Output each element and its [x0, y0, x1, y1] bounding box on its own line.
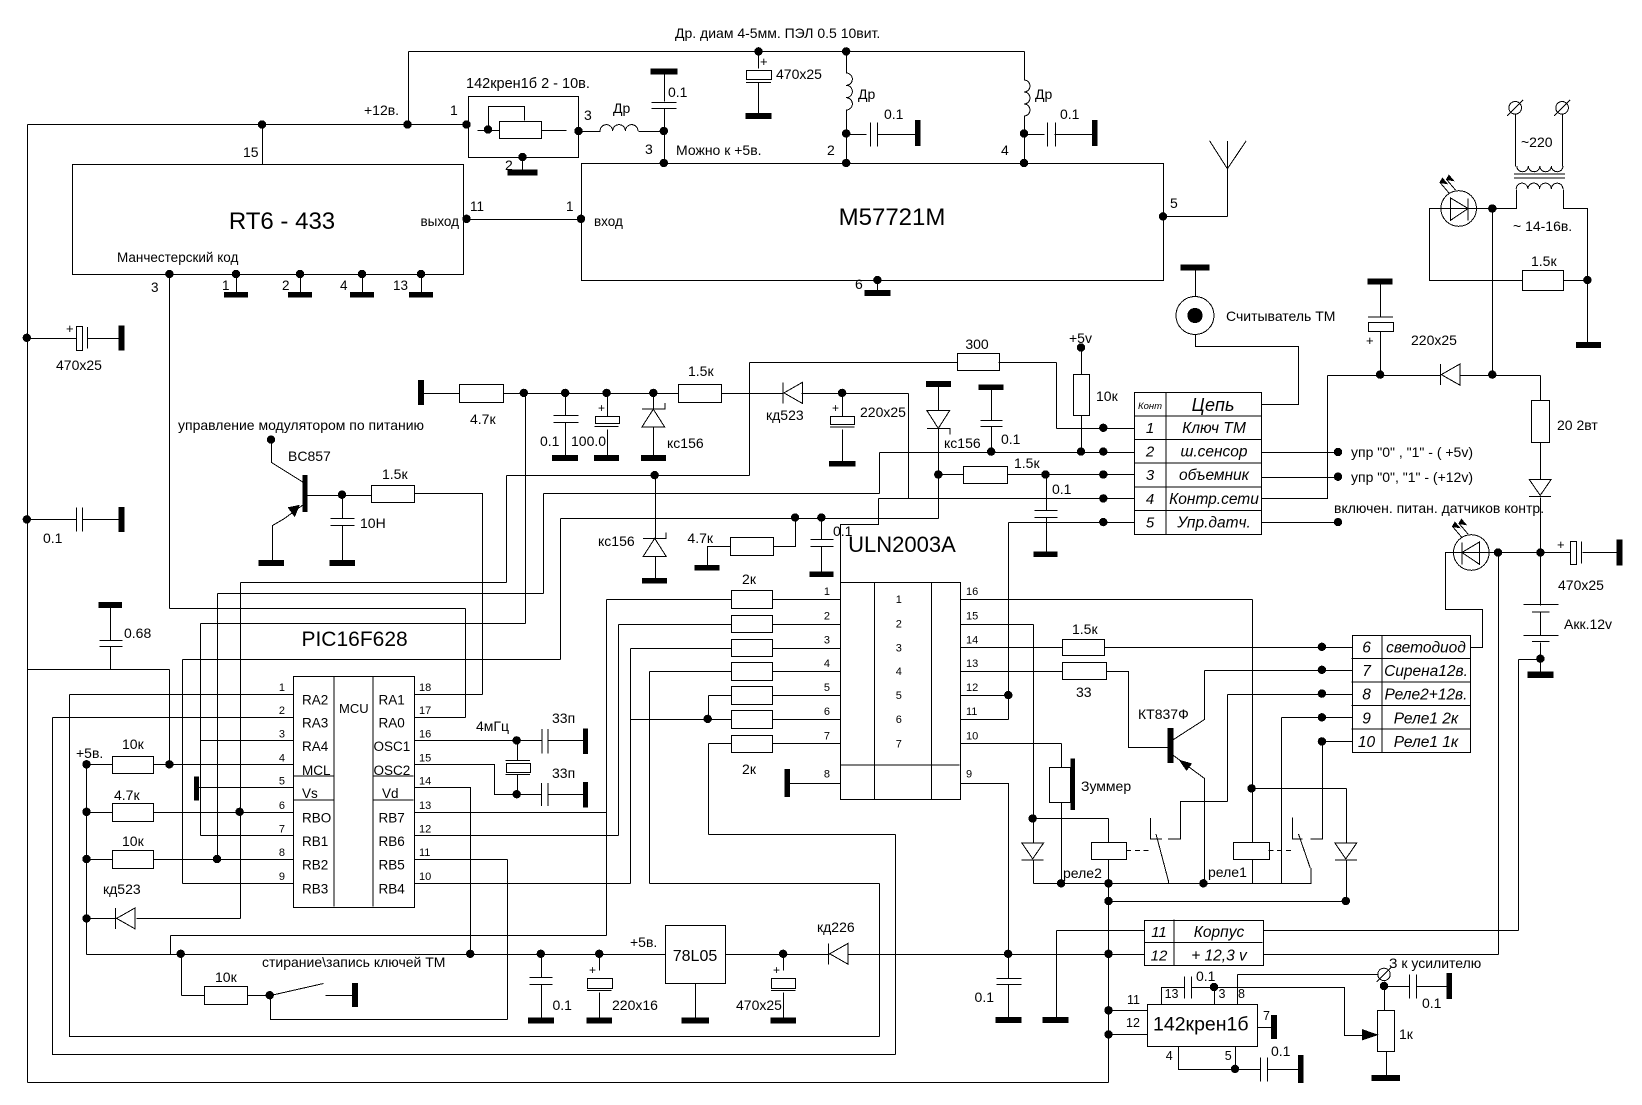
pin 15: [243, 144, 259, 160]
junction: [838, 389, 846, 397]
ground: [289, 293, 312, 298]
junction: [213, 855, 221, 863]
wire: [709, 834, 896, 836]
label 78L05: [673, 948, 718, 965]
junction: [1104, 1030, 1112, 1038]
pin 1: [566, 199, 574, 214]
resistor 1.5k: [372, 486, 415, 503]
label ULN2003A: [848, 532, 956, 557]
svg-text:4: 4: [896, 666, 902, 678]
connector TM reader: [1176, 297, 1214, 335]
terminal bar: [1181, 265, 1209, 270]
wire: [1033, 861, 1035, 884]
wire: [878, 134, 917, 136]
junction: [779, 950, 787, 958]
svg-text:+: +: [66, 321, 74, 336]
wire: [895, 835, 897, 1055]
polarity +: [1557, 537, 1565, 552]
wire RBO: [154, 812, 294, 814]
label M57721M: [839, 204, 946, 231]
diode VD: [1440, 364, 1459, 385]
wire: [722, 393, 784, 395]
block ULN2003A: [840, 582, 960, 800]
wire: [1380, 285, 1382, 318]
wire: [110, 608, 112, 641]
svg-text:Сирена12в.: Сирена12в.: [1384, 663, 1468, 680]
wire +12v rail: [28, 124, 469, 126]
svg-text:0.1: 0.1: [884, 106, 904, 122]
resistor 2k: [732, 591, 773, 609]
junction node3: [660, 127, 668, 135]
table contacts 11-12: [1145, 920, 1264, 966]
svg-text:6: 6: [1362, 640, 1371, 657]
wire +5 line: [87, 954, 666, 956]
pin label RA3: [302, 716, 328, 731]
label rele1: [1208, 864, 1247, 880]
node upr5: [1334, 448, 1342, 456]
wire: [1025, 134, 1045, 136]
pin num 14: [966, 635, 978, 647]
polarity +: [66, 321, 74, 336]
pin label RA2: [302, 693, 328, 708]
wire: [1008, 985, 1010, 1018]
wire node3 to M pin3: [664, 132, 666, 164]
terminal bar: [979, 385, 1003, 390]
pin label RA1: [379, 693, 405, 708]
diode flyback rele1: [1335, 843, 1357, 860]
polarity +: [589, 963, 596, 977]
ground: [1034, 552, 1057, 557]
svg-text:11: 11: [1151, 924, 1167, 941]
terminal bar: [651, 69, 677, 74]
svg-text:220x25: 220x25: [860, 404, 906, 420]
svg-text:OSC1: OSC1: [374, 739, 411, 754]
label RT6-433: [229, 208, 335, 235]
wire: [802, 393, 909, 395]
svg-text:выход: выход: [420, 214, 459, 229]
wire RT6 pin15: [262, 125, 264, 165]
diode VD2: [1529, 479, 1551, 496]
wire: [939, 474, 964, 476]
wire: [544, 493, 880, 495]
wire: [1227, 695, 1229, 802]
label ks156: [598, 533, 635, 549]
wire: [938, 429, 940, 475]
wire: [560, 519, 562, 660]
value 10k: [1096, 388, 1119, 404]
terminal bar: [119, 507, 124, 531]
wire: [1061, 803, 1063, 884]
value 2k: [742, 761, 757, 777]
wire svetodiod to LED: [1446, 553, 1483, 648]
svg-text:13: 13: [393, 278, 408, 293]
wire: [1515, 115, 1517, 167]
table row name korpus: [1194, 924, 1245, 941]
table row num 2: [1145, 444, 1155, 461]
svg-text:4: 4: [824, 658, 830, 670]
wire row5: [1009, 522, 1135, 524]
svg-text:2: 2: [896, 619, 902, 631]
pin num 11: [966, 706, 977, 718]
wire: [1540, 376, 1542, 401]
pin num 12: [966, 682, 978, 694]
transformer T1 primary: [1517, 166, 1563, 172]
value 10N: [360, 515, 386, 531]
svg-text:2к: 2к: [742, 571, 757, 587]
wire row10 stub: [1323, 741, 1353, 743]
wire: [1109, 901, 1347, 903]
wire: [1081, 416, 1083, 453]
pin num 1: [279, 682, 285, 694]
table header Kont: [1138, 401, 1162, 412]
transformer core: [1514, 174, 1565, 178]
node M pin5: [1159, 212, 1167, 220]
wire secondary left: [1493, 190, 1517, 209]
junction: [842, 47, 850, 55]
wire: [248, 995, 271, 997]
wire 300 to row1: [999, 362, 1057, 364]
block M57721M: [582, 164, 1164, 281]
svg-text:6: 6: [855, 276, 863, 292]
svg-text:0.1: 0.1: [1196, 968, 1216, 984]
switch contact: [326, 995, 353, 997]
svg-text:9: 9: [966, 769, 972, 781]
ground: [1528, 672, 1553, 678]
svg-text:+: +: [1557, 537, 1565, 552]
svg-text:10к: 10к: [215, 969, 238, 985]
svg-text:300: 300: [965, 336, 989, 352]
block 142kren1b: [1148, 1005, 1258, 1047]
svg-text:4: 4: [1146, 491, 1154, 508]
label BC857: [288, 448, 331, 464]
connector terminal: [1554, 100, 1570, 116]
table row name 12v: [1191, 948, 1248, 965]
svg-text:кд523: кд523: [103, 881, 141, 897]
svg-text:1: 1: [566, 199, 574, 214]
pin 1: [222, 278, 230, 293]
wire: [1346, 789, 1348, 844]
wire RB4: [415, 883, 631, 885]
wire: [517, 775, 519, 795]
label KT837F: [1138, 706, 1189, 722]
capacitor 220x16: [587, 979, 613, 991]
wire: [541, 985, 543, 1019]
svg-text:5: 5: [1225, 1049, 1232, 1063]
table row num 8: [1362, 687, 1371, 704]
junction: [1536, 548, 1544, 556]
inductor Dr2: [846, 73, 852, 110]
svg-text:RB7: RB7: [379, 810, 405, 825]
wire out9: [961, 784, 1009, 955]
wire pin stub: [300, 275, 302, 293]
svg-text:RB3: RB3: [302, 881, 328, 896]
junction: [1104, 897, 1112, 905]
wire RA4: [201, 740, 294, 742]
inductor Dr1: [600, 125, 638, 131]
pin 2: [505, 157, 513, 173]
wire pin stub: [236, 275, 238, 293]
junction: [513, 790, 521, 798]
wire to RA1: [415, 494, 483, 695]
svg-text:0.1: 0.1: [553, 997, 573, 1013]
wire row4 jog: [841, 499, 879, 583]
label Dr: [1035, 86, 1052, 102]
svg-text:142крен1б: 142крен1б: [1153, 1014, 1249, 1036]
wire pin stub: [421, 275, 423, 293]
svg-text:Конт: Конт: [1138, 401, 1162, 412]
zener ks156 3: [643, 532, 666, 556]
node RT6 pin 4: [358, 270, 366, 278]
wire: [1192, 987, 1215, 989]
value 10k: [215, 969, 238, 985]
wire pin18 RA1: [415, 694, 483, 696]
table row num 5: [1146, 514, 1155, 531]
pin num 12: [419, 823, 431, 835]
svg-text:3: 3: [279, 728, 285, 740]
wire: [182, 995, 205, 997]
svg-text:470x25: 470x25: [1558, 577, 1604, 593]
wire M pin2: [846, 135, 848, 164]
wire: [1540, 553, 1542, 606]
svg-text:7: 7: [1263, 1009, 1270, 1023]
wire: [1384, 982, 1386, 987]
table row name: [1386, 640, 1466, 657]
svg-text:OSC2: OSC2: [374, 763, 411, 778]
ground: [641, 456, 665, 461]
pin num 6: [824, 706, 830, 718]
ground: [553, 456, 578, 461]
ground: [810, 572, 833, 577]
wire row7 sirena: [1205, 670, 1353, 672]
svg-text:4: 4: [1001, 142, 1009, 158]
value 33p: [552, 710, 575, 726]
table contacts 6-10: [1352, 635, 1471, 753]
pin num 9: [279, 871, 285, 883]
diode flyback rele2: [1022, 843, 1044, 860]
diode kd226: [829, 943, 848, 964]
pin 1: [450, 102, 458, 118]
wire: [1268, 1069, 1299, 1071]
wire: [1562, 115, 1564, 167]
wire pin12: [1109, 1034, 1148, 1036]
node: [1318, 666, 1326, 674]
wire: [565, 394, 567, 416]
wire pin stub: [362, 275, 364, 293]
svg-text:15: 15: [243, 144, 259, 160]
wire: [774, 519, 796, 547]
wire: [1024, 52, 1026, 81]
node pin3: [574, 127, 582, 135]
pin num 5: [896, 690, 902, 702]
wire to pot wiper: [1215, 988, 1363, 1036]
svg-text:470x25: 470x25: [736, 997, 782, 1013]
wire pin8 to amp: [1238, 974, 1379, 976]
wire: [655, 557, 657, 579]
ground: [1372, 1075, 1400, 1080]
pin num 15: [419, 752, 431, 764]
svg-text:кс156: кс156: [598, 533, 635, 549]
pin 2: [827, 142, 835, 158]
wire pin8: [1237, 975, 1239, 1005]
pin num 16: [966, 586, 978, 598]
table row num 12: [1151, 948, 1168, 965]
capacitor 470x25: [746, 71, 771, 83]
wire: [1033, 625, 1035, 819]
table row num 1: [1146, 420, 1154, 437]
wire: [708, 744, 710, 835]
resistor 2k: [732, 687, 773, 705]
svg-text:Зуммер: Зуммер: [1081, 778, 1131, 794]
svg-text:10: 10: [966, 730, 978, 742]
wire Manchester down to RA0: [465, 609, 467, 718]
wire: [653, 394, 655, 410]
wire kd523 feedback: [749, 363, 751, 476]
switch blade: [271, 984, 324, 996]
pin 2: [282, 278, 290, 293]
wire: [655, 476, 657, 539]
node M pin6: [873, 276, 881, 284]
wire: [783, 955, 785, 971]
value 0.1: [540, 433, 560, 449]
resistor 20 2W: [1532, 401, 1550, 443]
wire bottom border: [28, 1082, 1109, 1084]
wire: [842, 394, 844, 417]
antenna: [1210, 141, 1247, 217]
wire: [218, 593, 544, 595]
junction: [258, 120, 266, 128]
junction: [1020, 129, 1028, 137]
wire: [506, 476, 508, 583]
wire: [708, 696, 710, 720]
svg-text:0.1: 0.1: [1060, 106, 1080, 122]
resistor 2k: [732, 663, 773, 681]
svg-text:15: 15: [966, 611, 978, 623]
label Dr: [613, 100, 630, 116]
zener ks156 2: [927, 410, 950, 434]
pin 3: [645, 141, 653, 157]
svg-text:7: 7: [824, 730, 830, 742]
wire svetodiod: [1105, 647, 1353, 649]
terminal bar: [1447, 974, 1452, 999]
wire: [664, 75, 666, 102]
junction: [595, 950, 603, 958]
svg-text:78L05: 78L05: [673, 948, 718, 965]
wire ULN in7: [773, 743, 841, 745]
node RT6 pin 2: [296, 270, 304, 278]
wire +12.3 left: [1109, 954, 1145, 956]
svg-text:6: 6: [279, 800, 285, 812]
svg-text:18: 18: [419, 682, 431, 694]
svg-text:кс156: кс156: [944, 435, 981, 451]
capacitor 0.1: [1048, 123, 1056, 147]
wire LED left: [1430, 209, 1523, 281]
svg-text:BC857: BC857: [288, 448, 331, 464]
junction: [403, 120, 411, 128]
wire korpus: [1518, 660, 1520, 931]
ground: [410, 293, 433, 298]
svg-text:14: 14: [966, 635, 978, 647]
pin num 1: [824, 586, 830, 598]
svg-text:упр "0", "1" - (+12v): упр "0", "1" - (+12v): [1351, 469, 1473, 485]
wire Vs: [197, 787, 294, 789]
svg-text:5: 5: [1146, 514, 1155, 531]
resistor 4.7k: [460, 385, 504, 403]
wire to table row4: [1262, 376, 1328, 499]
svg-text:RB1: RB1: [302, 834, 328, 849]
label ks156: [944, 435, 981, 451]
svg-text:RB5: RB5: [379, 858, 405, 873]
svg-text:10к: 10к: [1096, 388, 1119, 404]
svg-text:Корпус: Корпус: [1194, 924, 1245, 941]
value 33: [1076, 684, 1092, 700]
value 470x25: [736, 997, 782, 1013]
value 1.5k: [1014, 455, 1040, 471]
wire to pin17 RA0: [415, 717, 466, 719]
wire: [1417, 986, 1448, 988]
wire: [938, 387, 940, 411]
svg-text:9: 9: [279, 871, 285, 883]
wire collector: [1174, 671, 1205, 740]
value 300: [965, 336, 989, 352]
ground: [1577, 343, 1601, 348]
node: [267, 435, 275, 443]
pin num 3: [279, 728, 285, 740]
svg-text:RA0: RA0: [379, 716, 405, 731]
pin 5: [1170, 195, 1178, 211]
node: [987, 447, 995, 455]
pin 3: [151, 280, 159, 295]
wire: [1055, 134, 1093, 136]
pin label Vs: [302, 786, 318, 801]
svg-text:0.1: 0.1: [1001, 431, 1021, 447]
svg-text:+: +: [760, 54, 768, 69]
pin 7: [1263, 1009, 1270, 1023]
wire: [1386, 1052, 1388, 1076]
wire ULN in2: [773, 624, 841, 626]
wire kd523 down: [909, 394, 939, 499]
svg-text:20 2вт: 20 2вт: [1557, 417, 1598, 433]
svg-text:0.1: 0.1: [540, 433, 560, 449]
junction: [791, 513, 799, 521]
wire: [507, 475, 750, 477]
terminal bar: [352, 984, 357, 1007]
node: [82, 760, 90, 768]
node RT6 pin3: [165, 270, 173, 278]
svg-text:1: 1: [279, 682, 285, 694]
node M in: [577, 215, 585, 223]
resistor 1.5k: [964, 467, 1008, 484]
wire row4: [879, 498, 1135, 500]
pin num 6: [896, 714, 902, 726]
pin 6: [855, 276, 863, 292]
wire ULN in1: [773, 599, 841, 601]
junction: [1057, 879, 1065, 887]
ground: [330, 560, 354, 565]
wire: [1380, 332, 1382, 376]
pin 11: [470, 199, 484, 214]
svg-text:4.7к: 4.7к: [687, 530, 713, 546]
wire in7: [709, 743, 732, 745]
svg-text:RB4: RB4: [379, 881, 406, 896]
svg-text:+: +: [832, 401, 839, 415]
pin label OSC1: [374, 739, 411, 754]
svg-text:1к: 1к: [1399, 1026, 1414, 1042]
svg-text:8: 8: [1238, 987, 1245, 1001]
wire collector: [272, 441, 304, 483]
junction: [1004, 950, 1012, 958]
resistor 2k: [732, 640, 773, 657]
node diamond: [177, 950, 185, 958]
